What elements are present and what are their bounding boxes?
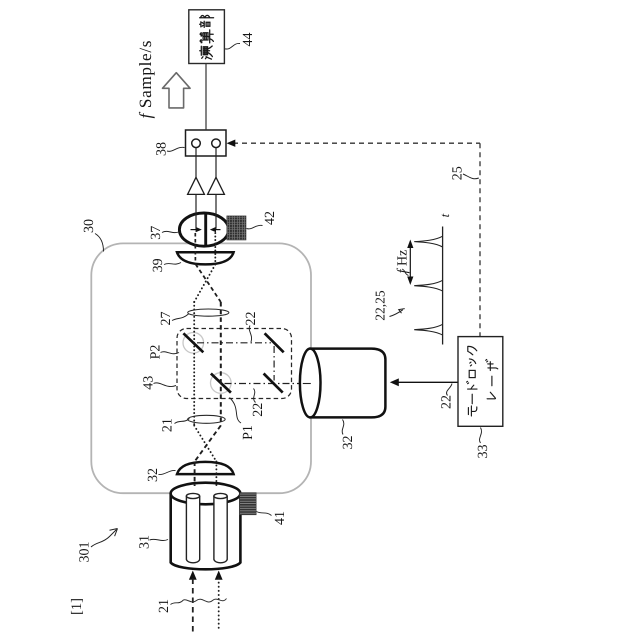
amplifier triangle right [208,177,225,194]
beam: dashed crossing above lens32 [195,426,221,462]
frequency double arrow [409,246,411,279]
pulse train axis t [442,227,444,345]
pulse 3 [414,324,442,335]
svg-text:21: 21 [157,599,172,613]
kana ク [468,346,477,354]
photodetector box 38 [186,130,227,156]
mode-locked laser box 33 [458,337,503,427]
svg-text:301: 301 [77,542,92,563]
dash-dot optical axis vertical right [273,346,275,381]
kanji 算 [200,30,213,43]
mirror P2 [183,333,203,352]
sampling dashed feedback line 25 vertical [479,143,481,336]
sampling dashed feedback line 25 horizontal [233,142,480,144]
svg-text:22,25: 22,25 [373,290,388,321]
squiggle 38 [167,147,185,151]
photodiode circle left [192,139,201,148]
squiggle P2 [161,352,180,354]
kana ザ [486,360,498,371]
svg-text:44: 44 [241,33,256,47]
divider line of 37 [204,213,207,245]
squiggle 43 [154,383,177,387]
squiggle 32 right [342,420,344,435]
squiggle 22 bottom [254,389,256,403]
sample tube right [214,496,227,563]
dash-dot optical axis P1 to bottom-right mirror and to lens barrel 32 [225,383,310,385]
kana レ [487,392,495,399]
lens barrel cylinder 32 (right) body [310,349,385,418]
squiggle 22 laser [447,384,452,396]
svg-text:P1: P1 [241,425,256,440]
svg-text:22: 22 [439,395,454,409]
amplifier triangle left [188,177,205,194]
svg-text:32: 32 [341,436,356,450]
squiggle 25 [463,174,479,179]
svg-text:t: t [437,213,452,217]
squiggle 22 top [249,326,251,343]
interferometer dashed box 43 [177,329,292,399]
squiggle 37 [162,231,180,232]
enclosure box 30 (light gray rounded rectangle) [91,243,311,493]
svg-text:30: 30 [82,219,97,233]
svg-text:27: 27 [159,312,174,326]
svg-text:[1]: [1] [69,598,85,615]
wire 44 to 38 [205,64,207,131]
lens barrel 32 left ellipse face [300,349,321,418]
svg-text:22: 22 [251,403,266,417]
sample cell cylinder 31 body [171,494,241,570]
squiggle P1 [230,398,242,424]
beam waist ellipse 21 [188,415,226,423]
mirror 22 top-right [265,333,284,352]
svg-text:22: 22 [244,312,259,326]
kana モ [468,406,476,416]
svg-text:38: 38 [154,142,169,156]
collimator lens 39 [177,252,234,264]
kanji 部 [200,15,214,27]
beam: dotted vertical through interferometer [193,302,195,426]
kana ド [467,381,477,389]
pulse 2 [414,280,442,291]
block arrow f Sample/s [163,73,191,108]
pulse 1 [414,236,442,247]
beam: dotted into cell [215,462,217,489]
beam: dotted segment ellipse37 to lens39 [214,233,216,264]
wire amp left to 37 [195,194,197,228]
left arrow inside 37 [191,229,197,231]
photodiode circle right [212,139,221,148]
axis tick in barrel face [303,383,311,385]
squiggle f Hz [402,269,409,276]
mirror 22 bottom-right [264,374,283,393]
kana ロ [469,370,475,377]
kana ー(2) [491,376,493,386]
svg-text:33: 33 [476,445,491,459]
svg-text:f Sample/s: f Sample/s [136,40,155,118]
computation unit box 44 [189,10,225,64]
pointer 30 [95,234,104,252]
beam spot circle on mirror P1 [211,373,232,394]
svg-text:42: 42 [263,211,278,225]
right arrow inside 37 [215,229,221,231]
svg-text:21: 21 [160,418,175,432]
squiggle 39 [164,263,181,265]
svg-text:37: 37 [149,226,164,240]
squiggle 42 [247,225,263,229]
dash-dot optical axis P2 to top-right mirror [197,342,271,344]
squiggle 21 upper [175,419,190,424]
squiggle 21 bottom [171,602,182,605]
wire circle left to amp [195,148,197,178]
laser beam wire to barrel 32 [396,381,458,383]
kanji 演 [200,46,213,59]
squiggle 32 left [159,470,176,474]
svg-text:25: 25 [451,166,466,180]
polarizing element 37 ellipse [179,213,228,246]
squiggle 44 [225,43,240,49]
arrowhead into barrel 32 [390,378,399,386]
squiggle 27 [172,314,189,321]
beam: dashed crossing below lens39 [196,264,221,302]
sample tube left [186,496,199,563]
beam waist ellipse 27 [188,309,229,316]
squiggle 33 [479,428,481,444]
svg-text:31: 31 [137,535,152,549]
squiggle 41 [257,512,272,516]
svg-text:39: 39 [151,258,166,272]
beam: dashed segment ellipse37 to lens39 [194,233,196,264]
wire circle right to amp [215,148,217,178]
arrow dotted into cell bottom [215,571,223,580]
wavy line across beams 21 [182,599,227,603]
wire amp right to 37 [215,194,217,228]
arrow dashed into cell bottom [189,571,197,580]
kana ッ [469,359,475,366]
squiggle 31 [150,539,169,540]
beam: dashed into cell [194,462,196,487]
beam: dotted crossing above lens32 [194,426,216,462]
sample cell cylinder 31 top ellipse [171,483,241,505]
beam: dotted crossing below lens39 [194,265,215,303]
kana ー [471,394,473,404]
beam: dashed vertical through P1 [220,302,222,426]
arrowhead into box 38 [227,140,236,147]
mirror P1 [211,374,231,393]
arrow 301 [91,530,117,548]
absorber hatch block 42 [227,216,246,240]
small arrow from 22,25 [390,310,403,317]
svg-text:41: 41 [273,511,288,525]
heater hatch block 41 [240,493,257,515]
condenser lens 32 (lower) [177,462,234,474]
beam spot circle on mirror P2 [183,333,204,354]
